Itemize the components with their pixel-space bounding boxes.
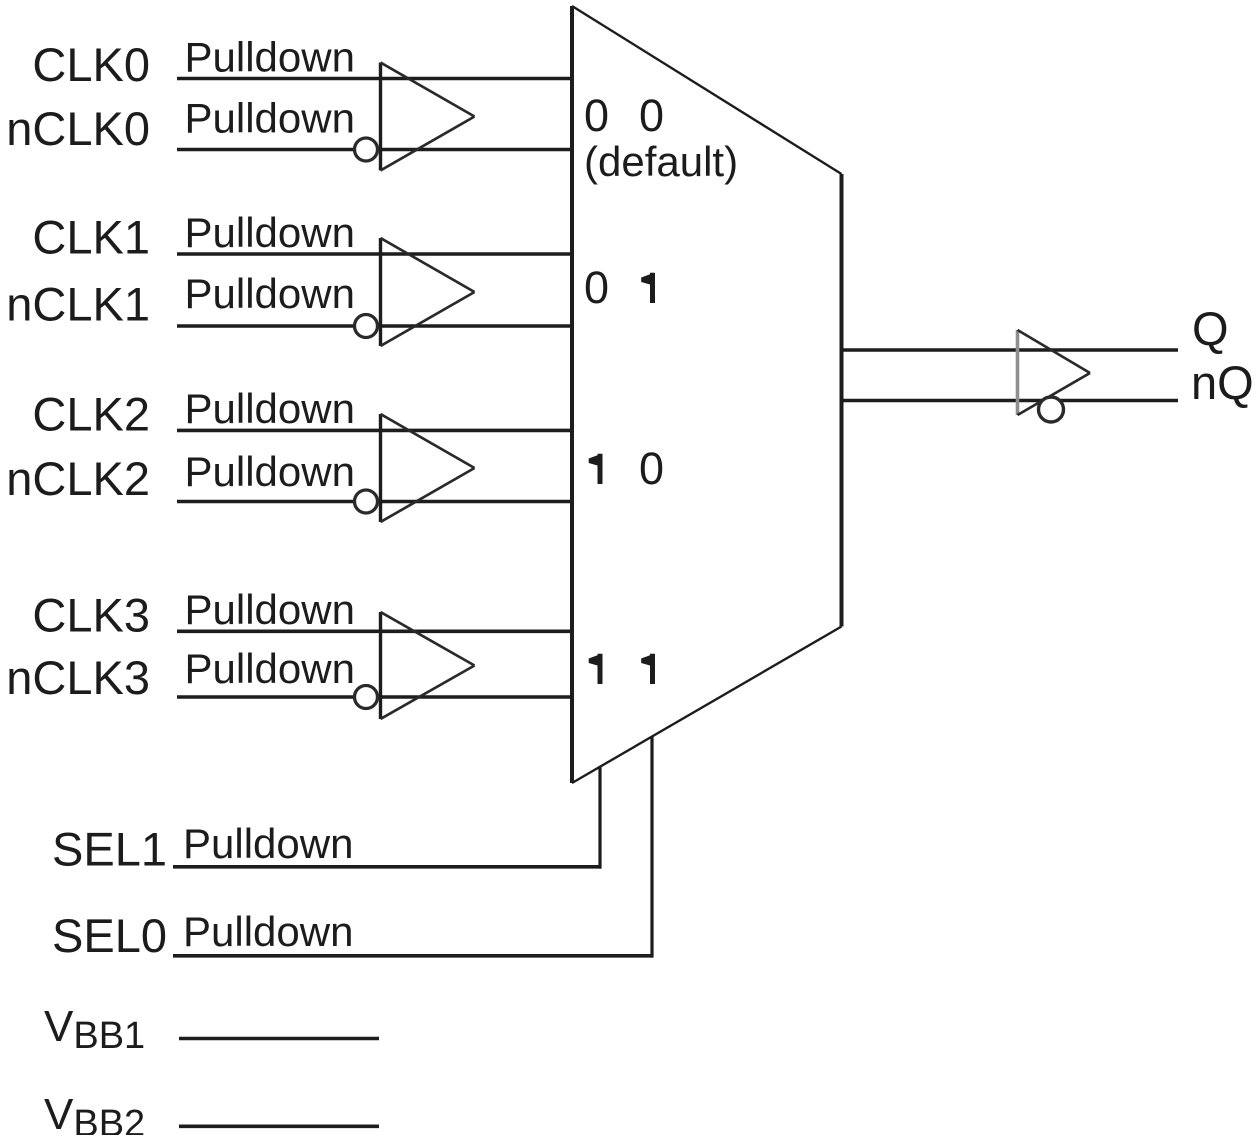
wire nCLK1 <box>177 324 572 328</box>
select code 10 <box>589 443 664 494</box>
output buffer U6 (Q/nQ) <box>1018 330 1091 415</box>
wire nCLK0 <box>177 148 572 152</box>
select code 11 <box>589 654 655 684</box>
svg-text:nCLK3: nCLK3 <box>6 651 150 704</box>
mux U5 body <box>572 6 842 783</box>
wire VBB1 <box>179 1037 379 1041</box>
wire nCLK2 <box>177 500 572 504</box>
svg-text:Pulldown: Pulldown <box>185 95 355 142</box>
svg-text:Pulldown: Pulldown <box>185 33 355 80</box>
select code 01 <box>584 262 655 313</box>
svg-text:Pulldown: Pulldown <box>183 908 353 955</box>
svg-text:CLK2: CLK2 <box>32 388 150 441</box>
svg-text:nCLK0: nCLK0 <box>6 102 150 155</box>
wire nQ <box>841 399 1178 403</box>
svg-text:(default): (default) <box>584 138 738 185</box>
wire CLK2 <box>177 429 572 433</box>
svg-text:CLK0: CLK0 <box>32 38 150 91</box>
svg-text:Pulldown: Pulldown <box>185 645 355 692</box>
input buffer U3 (CLK2/nCLK2) <box>381 414 475 522</box>
svg-text:0: 0 <box>639 90 664 141</box>
wire CLK1 <box>177 252 572 256</box>
svg-text:nCLK2: nCLK2 <box>6 452 150 505</box>
input buffer U1 (CLK0/nCLK0) <box>381 63 475 171</box>
wire SEL1 <box>173 766 602 869</box>
wire VBB2 <box>179 1125 379 1129</box>
wire SEL0 <box>173 736 654 958</box>
svg-text:0: 0 <box>639 443 664 494</box>
svg-text:0: 0 <box>584 90 609 141</box>
svg-text:Pulldown: Pulldown <box>185 385 355 432</box>
svg-text:0: 0 <box>584 262 609 313</box>
svg-text:nQ: nQ <box>1191 356 1254 409</box>
svg-text:Pulldown: Pulldown <box>185 209 355 256</box>
input buffer U4 (CLK3/nCLK3) <box>381 612 475 719</box>
svg-text:CLK1: CLK1 <box>32 211 150 264</box>
inversion bubble U4 <box>355 686 378 709</box>
inversion bubble U1 <box>355 138 378 161</box>
inversion bubble U2 <box>355 315 378 338</box>
svg-text:Pulldown: Pulldown <box>185 270 355 317</box>
wire nCLK3 <box>177 695 572 699</box>
svg-text:Q: Q <box>1192 302 1229 355</box>
svg-text:Pulldown: Pulldown <box>185 448 355 495</box>
svg-text:SEL1: SEL1 <box>52 822 167 875</box>
svg-text:Pulldown: Pulldown <box>185 586 355 633</box>
wire CLK0 <box>177 77 572 81</box>
svg-text:nCLK1: nCLK1 <box>6 278 150 331</box>
svg-text:Pulldown: Pulldown <box>183 820 353 867</box>
inversion bubble U3 <box>355 490 378 513</box>
wire Q <box>841 348 1178 352</box>
input buffer U2 (CLK1/nCLK1) <box>381 238 475 346</box>
inversion bubble U6 <box>1039 397 1064 422</box>
wire CLK3 <box>177 629 572 633</box>
svg-text:SEL0: SEL0 <box>52 909 167 962</box>
svg-text:CLK3: CLK3 <box>32 589 150 642</box>
